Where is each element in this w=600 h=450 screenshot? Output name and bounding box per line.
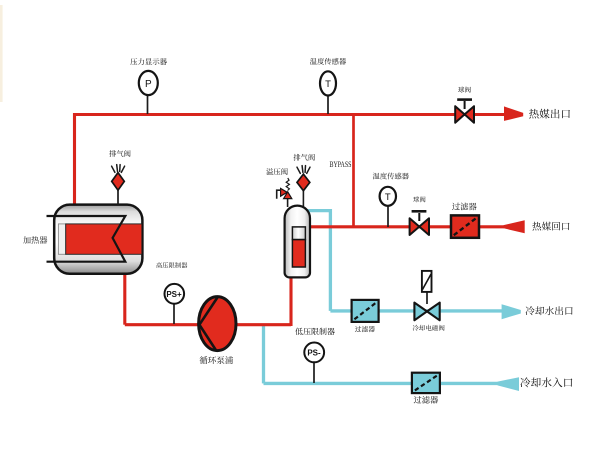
low pressure limiter PS- xyxy=(304,343,324,363)
wire: cooling water inlet line xyxy=(264,382,504,385)
label: filter 过滤器 (cooling inlet) xyxy=(414,396,438,404)
wire: hot return line (middle) xyxy=(308,225,504,228)
exhaust valve 1 (red diamond) xyxy=(112,173,125,191)
filter (cooling outlet) 过滤器 xyxy=(352,300,379,322)
exhaust valve 2 spray marks xyxy=(297,166,310,174)
wire: P indicator stem xyxy=(147,92,149,114)
label: ball valve 2 球阀 xyxy=(413,196,425,202)
label: hot media return 热媒回口 xyxy=(532,222,569,231)
wire: tank bottom stem xyxy=(289,274,292,326)
label: cooling water outlet 冷却水出口 xyxy=(526,306,573,315)
wire: heater outlet drop xyxy=(123,271,126,325)
relief valve stem xyxy=(287,197,289,207)
tank vessel body xyxy=(285,206,310,278)
relief valve 泄压阀 (angle valve with spring) xyxy=(277,178,292,199)
label: relief valve 泄压阀 xyxy=(266,168,288,175)
wire: cyan pipe from tank top to cooling outlet line xyxy=(303,211,330,311)
wire: pump suction/discharge line (bottom) xyxy=(125,323,291,326)
wire: hot supply header (top) xyxy=(73,113,505,116)
exhaust valve 2 (red diamond) xyxy=(297,174,310,191)
label: ball valve 1 球阀 xyxy=(458,87,471,93)
wire: BYPASS drop line xyxy=(352,115,355,228)
wire: PS+ stem xyxy=(173,303,175,324)
label: pressure indicator 压力显示器 xyxy=(130,58,167,65)
wire: heater inlet riser (left) xyxy=(73,113,76,206)
label: hot media outlet 热媒出口 xyxy=(529,109,570,119)
ball valve 2 (bowtie) xyxy=(410,218,429,235)
exhaust valve 1 stem xyxy=(117,189,119,205)
circulation pump xyxy=(199,297,236,351)
hot media return arrow xyxy=(504,220,525,233)
ball valve 1 (bowtie) xyxy=(455,106,474,123)
ball valve 1 handle xyxy=(457,100,472,109)
hot media outlet arrow xyxy=(504,106,523,121)
filter (hot return) 过滤器 xyxy=(451,215,479,237)
svg-text:PS+: PS+ xyxy=(166,290,182,299)
high pressure limiter PS+ xyxy=(165,284,185,304)
wire: cooling water outlet line xyxy=(330,309,503,312)
svg-text:T: T xyxy=(385,192,391,203)
svg-text:PS-: PS- xyxy=(307,348,321,357)
svg-text:P: P xyxy=(145,79,152,90)
pressure indicator P xyxy=(139,71,158,95)
wire: PS- stem xyxy=(313,362,315,383)
filter (cooling inlet) 过滤器 xyxy=(412,373,440,393)
ball valve 2 handle xyxy=(412,211,427,221)
label: temperature sensor 2 温度传感器 xyxy=(373,173,409,180)
label: filter 过滤器 (cooling outlet) xyxy=(355,326,375,332)
label: cooling water inlet 冷却水入口 xyxy=(520,377,572,387)
exhaust valve 1 spray marks xyxy=(112,165,125,173)
label: exhaust valve 2 排气阀 xyxy=(294,154,315,161)
cooling water inlet arrow xyxy=(498,377,520,391)
heater vessel body xyxy=(47,205,143,274)
label: exhaust valve 排气阀 xyxy=(109,150,130,157)
label: temperature sensor 温度传感器 xyxy=(310,58,346,65)
label: high pressure limiter 高压限制器 xyxy=(156,262,187,268)
wire: cooling water inlet riser to circulation line xyxy=(262,325,265,384)
cooling water outlet arrow xyxy=(502,304,521,319)
temperature sensor 1 xyxy=(320,71,336,95)
wire: T sensor 1 stem xyxy=(327,93,329,114)
label: cooling solenoid valve 冷却电磁阀 xyxy=(413,325,445,331)
cooling solenoid valve (bowtie) xyxy=(414,303,439,321)
wire: T sensor 2 stem xyxy=(387,205,389,227)
faint scan stripe at left edge xyxy=(0,5,3,102)
cooling solenoid valve coil xyxy=(422,271,432,304)
exhaust valve 2 stem xyxy=(302,189,304,207)
heater element line xyxy=(47,216,126,262)
svg-text:BYPASS: BYPASS xyxy=(330,160,352,169)
svg-text:T: T xyxy=(325,79,331,90)
temperature sensor 2 xyxy=(380,187,396,206)
label: heater 加热器 xyxy=(23,236,47,244)
label: circulation pump 循环泵浦 xyxy=(200,356,233,364)
label: low pressure limiter 低压限制器 xyxy=(295,328,335,335)
label: filter 过滤器 (hot return) xyxy=(452,203,476,211)
